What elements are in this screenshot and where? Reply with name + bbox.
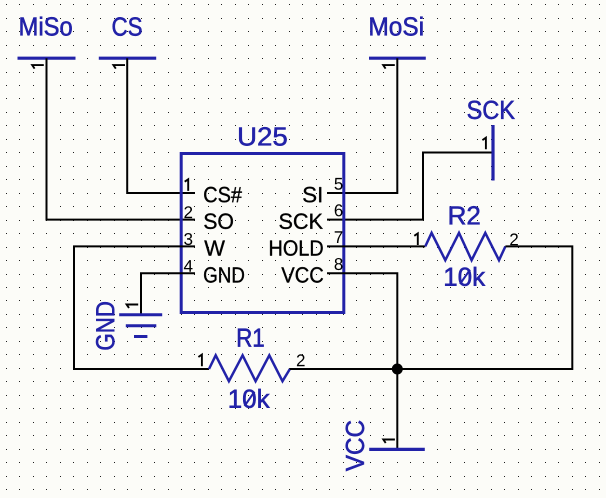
U25 designator [239,127,286,146]
port SCK label [468,101,515,120]
port SCK bar [491,125,494,181]
R2 designator [450,206,480,224]
port MiSo label [21,17,72,36]
port CS pin 1 number [113,65,125,69]
U25 pin 6 name SCK [280,213,323,229]
resistor R2 [425,233,505,260]
wire CS to U25 pin 1 (CS#) [127,58,195,193]
wire R2 pin 2 to junction [397,246,572,369]
resistor R1 [209,355,290,381]
U25 pin 1 number [185,179,189,191]
ground bar 2 [126,324,157,327]
U25 pin 4 name GND [204,267,244,283]
wire MiSo to U25 pin 2 (SO) [47,58,196,219]
power VCC label [346,421,365,471]
R1 pin 1 number [198,355,202,367]
junction node [392,364,403,375]
ground pin 1 number [127,305,139,309]
wire SCK to U25 pin 6 (SCK) [327,153,492,220]
wire U25 pin 4 (GND) to GND port [141,273,195,314]
R2 pin 1 number [414,233,418,245]
U25 pin 3 number [184,233,192,245]
U25 pin 2 name SO [204,213,233,229]
wire R1 pin 2 to junction [290,368,397,370]
R1 value 10k [230,389,270,408]
op IC U25 body [181,154,344,313]
U25 pin 5 number [335,178,343,190]
U25 pin 3 name W [204,241,225,256]
port CS label [113,17,142,36]
port MoSi label [370,17,422,36]
R1 value zero slash [245,392,255,406]
wire U25 pin 3 (W) to R1 pin 1 [74,246,209,369]
U25 pin 2 number [184,206,192,218]
wire junction to VCC port [396,369,398,448]
wire MoSi to U25 pin 5 (SI) [327,58,397,193]
port MiSo bar [18,57,76,60]
U25 pin 5 name SI [303,187,321,203]
U25 pin 1 name CS# [204,187,242,203]
R2 value 10k [445,267,485,286]
port SCK pin 1 number [482,138,486,150]
U25 pin 8 number [335,258,343,270]
R1 pin 2 number [297,354,305,366]
U25 pin 7 name HOLD [270,240,323,256]
ground GND label [96,302,115,349]
R1 designator [238,329,264,347]
U25 pin 4 number [184,260,193,272]
U25 pin 6 number [335,204,343,216]
port MoSi bar [369,57,426,60]
R2 value zero slash [460,270,470,284]
U25 pin 8 name VCC [281,267,323,283]
power VCC bar [369,448,425,451]
wire U25 pin 8 (VCC) to junction [327,273,397,369]
ground bar 1 [119,313,162,316]
port MoSi pin 1 number [383,65,395,69]
port MiSo pin 1 number [32,65,44,69]
power VCC pin 1 number [383,440,395,444]
wire U25 pin 7 (HOLD) to R2 pin 1 [327,245,425,247]
port CS bar [99,57,156,60]
ground bar 3 [134,335,147,338]
R2 pin 2 number [510,233,518,245]
U25 pin 7 number [335,231,343,243]
